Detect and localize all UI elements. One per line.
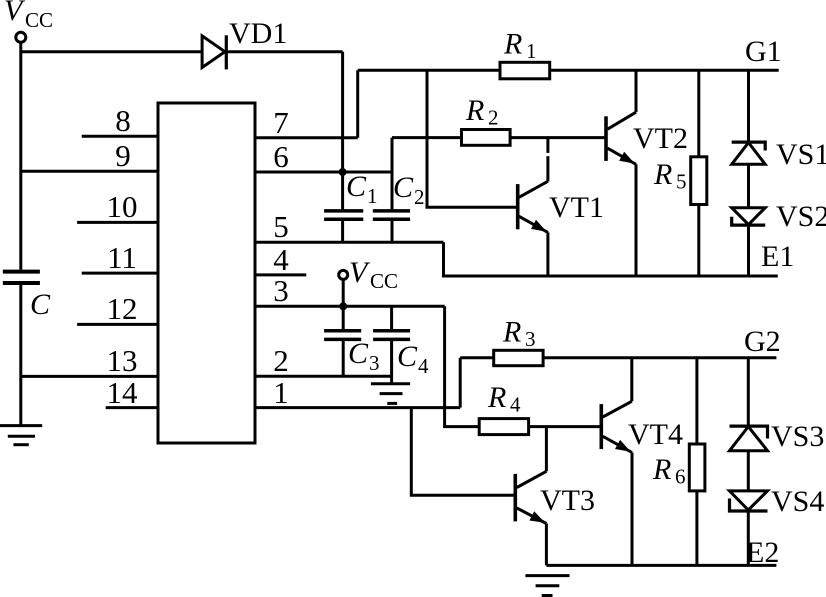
svg-text:2: 2 — [488, 106, 499, 130]
resistor R3 — [494, 350, 543, 365]
label G2 — [744, 325, 781, 358]
node A junction dot on pin6 line — [339, 168, 347, 176]
wire C4 bottom to ground — [390, 341, 393, 384]
wire pin5 corner down to E1 rail — [444, 242, 778, 276]
resistor R4 — [479, 419, 528, 435]
pin 8 — [82, 135, 158, 138]
capacitor C3 — [324, 331, 361, 340]
svg-text:5: 5 — [676, 170, 687, 194]
svg-text:VD1: VD1 — [229, 17, 287, 50]
ground bottom — [525, 576, 569, 596]
label E2 — [746, 536, 779, 569]
pin 4 — [255, 273, 306, 276]
pin 5 — [255, 241, 444, 244]
label Vcc top-left — [4, 0, 53, 32]
svg-text:G2: G2 — [744, 325, 781, 358]
wire pin3 corner down to R4 line — [445, 306, 602, 426]
pin 14 — [106, 406, 158, 409]
wire pin1 junction down to VT3 base — [411, 408, 514, 496]
svg-text:VS1: VS1 — [776, 138, 826, 171]
svg-text:3: 3 — [273, 273, 289, 308]
label VD1 — [229, 17, 287, 50]
label E1 — [761, 240, 794, 273]
svg-text:R: R — [502, 316, 521, 349]
pin 9 — [21, 170, 158, 173]
svg-text:VT2: VT2 — [633, 122, 688, 155]
svg-text:3: 3 — [369, 351, 380, 375]
resistor R6 — [689, 358, 705, 566]
terminal Vcc mid — [339, 270, 348, 279]
wire G1-rail to VT1 base — [427, 70, 516, 207]
svg-text:7: 7 — [273, 105, 289, 140]
terminal Vcc top-left — [16, 32, 26, 42]
capacitor C — [3, 272, 40, 283]
svg-text:6: 6 — [273, 139, 289, 174]
wire Vcc vertical left rail — [19, 43, 22, 270]
wire C3 bottom to pin2 line — [342, 341, 345, 376]
svg-text:R: R — [503, 28, 522, 61]
svg-text:VS3: VS3 — [771, 420, 824, 453]
svg-text:G1: G1 — [745, 35, 782, 68]
svg-text:VS4: VS4 — [771, 485, 824, 518]
transistor VT3 — [515, 427, 546, 566]
wire C4 top to pin3 line — [390, 306, 393, 329]
pin 6 — [255, 171, 392, 174]
label G1 — [745, 35, 782, 68]
wire G1 rail — [358, 69, 779, 72]
svg-text:R: R — [487, 381, 506, 414]
capacitor C1 — [324, 211, 363, 219]
pin 10 — [77, 221, 158, 224]
transistor VT2 — [606, 70, 636, 276]
transistor VT1 — [518, 138, 548, 276]
wire VD1 output down to node A — [341, 52, 344, 210]
svg-text:4: 4 — [418, 354, 429, 378]
pin 12 — [77, 323, 158, 326]
svg-text:C: C — [346, 170, 367, 203]
wire top Vcc horizontal to VD1 — [21, 50, 343, 53]
ground mid — [371, 384, 410, 404]
diode VD1 — [202, 35, 226, 69]
ground left — [0, 426, 42, 445]
diode VS2 — [732, 208, 766, 225]
resistor R1 — [500, 62, 550, 79]
wire C bottom to ground — [19, 285, 22, 425]
svg-text:CC: CC — [370, 269, 398, 293]
svg-text:6: 6 — [675, 465, 686, 489]
wire Vcc mid down to node B — [342, 279, 345, 306]
wire pin7 up corner — [356, 70, 359, 138]
svg-text:CC: CC — [25, 8, 53, 32]
svg-text:8: 8 — [115, 103, 131, 138]
resistor R5 — [691, 70, 707, 276]
diode VS1 — [732, 142, 766, 164]
svg-text:4: 4 — [510, 393, 521, 417]
wire pin1 corner up to G2 line — [459, 358, 462, 408]
pin 2 — [255, 375, 392, 378]
wire C1 bottom to pin5 line — [341, 221, 344, 243]
wire C3 top — [342, 306, 345, 329]
svg-text:11: 11 — [107, 240, 137, 275]
wire R2 line — [392, 136, 605, 139]
svg-text:1: 1 — [526, 39, 537, 63]
svg-text:10: 10 — [107, 189, 138, 224]
svg-text:1: 1 — [273, 375, 289, 410]
IC U1 — [158, 103, 255, 443]
svg-text:C: C — [348, 337, 369, 370]
wire C2 top to R2 line — [391, 138, 394, 210]
svg-text:2: 2 — [273, 343, 289, 378]
svg-text:R: R — [465, 94, 484, 127]
wire VS3/VS4 branch vertical — [747, 358, 750, 566]
svg-text:C: C — [393, 171, 414, 204]
svg-text:3: 3 — [525, 327, 536, 351]
wire G2 rail — [460, 356, 776, 359]
svg-text:VT3: VT3 — [540, 484, 595, 517]
capacitor C4 — [373, 331, 410, 340]
svg-text:4: 4 — [273, 242, 289, 277]
pin 1 — [255, 406, 460, 409]
svg-text:E1: E1 — [761, 240, 794, 273]
pin 11 — [82, 272, 158, 275]
svg-text:14: 14 — [107, 375, 139, 410]
svg-text:C: C — [30, 288, 51, 321]
pin 7 — [255, 136, 358, 139]
capacitor C2 — [373, 211, 410, 219]
svg-text:VS2: VS2 — [776, 200, 826, 233]
svg-text:C: C — [397, 340, 418, 373]
resistor R2 — [462, 130, 511, 146]
svg-text:12: 12 — [107, 291, 138, 326]
pin 3 — [255, 305, 445, 308]
svg-text:R: R — [653, 158, 672, 191]
svg-text:9: 9 — [115, 138, 131, 173]
wire VS1/VS2 branch vertical — [747, 70, 750, 276]
pin 13 — [21, 375, 158, 378]
svg-text:1: 1 — [367, 184, 378, 208]
transistor VT4 — [601, 358, 632, 566]
diode VS4 — [730, 491, 768, 511]
svg-text:2: 2 — [414, 185, 425, 209]
svg-text:13: 13 — [107, 343, 138, 378]
svg-text:5: 5 — [273, 209, 289, 244]
svg-text:VT1: VT1 — [549, 191, 604, 224]
node B junction dot on pin3 line — [339, 302, 347, 310]
diode VS3 — [730, 426, 768, 451]
wire C2 bottom to pin5 line — [391, 221, 394, 243]
wire E2 rail — [546, 564, 776, 567]
svg-text:VT4: VT4 — [628, 418, 683, 451]
svg-text:R: R — [652, 453, 671, 486]
